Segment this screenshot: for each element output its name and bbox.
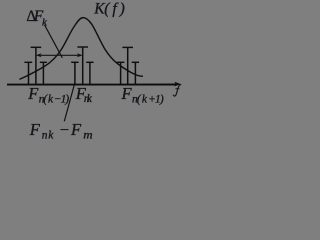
spectral line group 2: short line right (86, 62, 93, 84)
spectral line group 3: short line right (132, 62, 139, 84)
svg-text:F: F (29, 120, 41, 139)
svg-text:F: F (70, 120, 82, 139)
spectral line group 1: short line right (40, 62, 47, 84)
svg-text:m: m (83, 130, 92, 142)
frequency axis f (7, 84, 177, 86)
spectral line group 1: short line left (24, 62, 32, 84)
spectral line group 2: tall line F_nk (77, 47, 88, 84)
svg-text:nk: nk (84, 93, 93, 105)
leader line from F_nk - F_m label to axis (64, 85, 74, 121)
spectral line group 3: short line left (117, 62, 125, 84)
filter response curve K(f) (20, 18, 144, 80)
spectral line group 2: short line left (71, 62, 78, 84)
axis arrowhead (174, 82, 181, 87)
svg-text:n( k −1): n( k −1) (39, 94, 70, 106)
leader line from Delta F_k label to arrow (45, 25, 63, 58)
svg-text:−: − (60, 120, 69, 139)
double-headed arrow between tall lines (spacing Delta F_k) (38, 54, 81, 56)
svg-text:F: F (121, 84, 133, 103)
spectral line group 3: tall line F_n(k+1) (122, 47, 133, 84)
label f (axis) (173, 85, 181, 96)
svg-text:n( k +1): n( k +1) (132, 94, 164, 106)
svg-text:F: F (27, 84, 39, 103)
svg-text:nk: nk (42, 130, 54, 142)
spectral line group 1: tall line F_n(k-1) (31, 47, 42, 84)
svg-text:K( f ): K( f ) (93, 1, 125, 18)
